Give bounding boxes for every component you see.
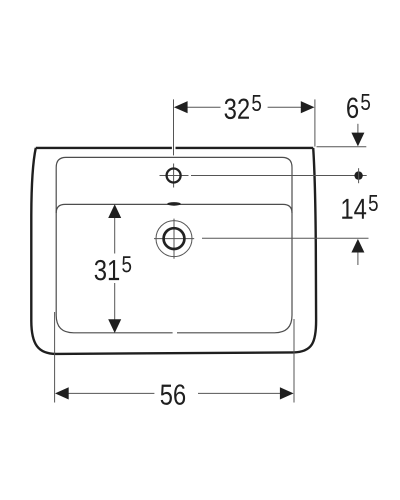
bowl top edge (56, 204, 292, 213)
reference dot tick (358, 168, 360, 183)
dim 31.5 arrow down (108, 319, 121, 333)
dim 56 extension line right (293, 319, 295, 403)
dim 32.5 extension line right (314, 99, 316, 146)
overflow dash (167, 202, 181, 206)
basin deck inner outline (56, 157, 292, 332)
dim 56 label (161, 384, 185, 405)
leader line faucet (191, 175, 367, 177)
dim 56 arrow left (55, 387, 69, 399)
reference dot faucet (354, 171, 362, 179)
drain inner circle (164, 228, 185, 249)
faucet hole crosshair (160, 164, 189, 188)
dim 32.5 arrow left (174, 101, 188, 113)
dim 14.5 label (342, 195, 378, 219)
leader line drain (202, 237, 369, 239)
top edge extension right (317, 146, 367, 148)
bowl bottom edge break (173, 332, 177, 334)
dim 56 line (68, 392, 281, 394)
dim 14.5 arrow up (357, 252, 359, 266)
drain crosshair (154, 219, 194, 259)
dim 56 extension line left (54, 312, 56, 403)
dim 6.5 arrow down (357, 124, 359, 134)
dim 32.5 label (225, 95, 261, 119)
basin outer ceramic outline (31, 148, 316, 354)
faucet hole (167, 169, 181, 183)
dim 32.5 line (187, 106, 301, 108)
drain outer circle (156, 221, 192, 257)
dim 31.5 arrow up (108, 204, 121, 218)
dim 56 arrow right (280, 387, 294, 399)
dim 31.5 line (114, 218, 116, 320)
dim 6.5 label (347, 94, 370, 118)
dim 32.5 arrow right (301, 101, 315, 113)
dim 31.5 label (95, 256, 131, 280)
dim 32.5 extension line left (173, 99, 175, 155)
